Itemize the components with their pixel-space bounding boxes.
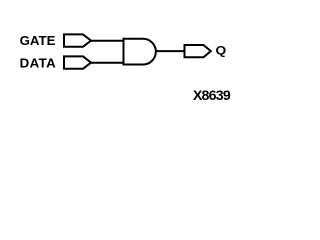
wire U1 output to Q tag xyxy=(155,50,185,52)
input tag GATE xyxy=(64,34,91,46)
wire GATE tag to U1 xyxy=(90,40,124,42)
output tag Q xyxy=(185,45,211,57)
svg-text:GATE: GATE xyxy=(20,33,56,48)
svg-text:DATA: DATA xyxy=(20,55,57,70)
svg-text:X8639: X8639 xyxy=(193,88,231,104)
wire DATA tag to U1 xyxy=(90,62,124,64)
and-gate U1 xyxy=(124,39,156,65)
svg-text:Q: Q xyxy=(216,43,227,57)
input tag DATA xyxy=(64,56,91,68)
